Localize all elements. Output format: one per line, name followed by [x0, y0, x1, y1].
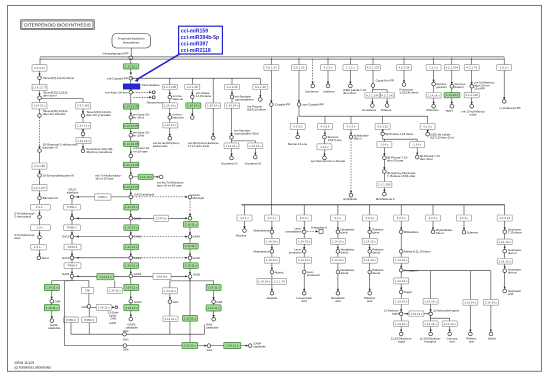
svg-text:Taxa-4(5),11(12)-diene: Taxa-4(5),11(12)-diene: [43, 76, 75, 80]
svg-text:4.3.3.0: 4.3.3.0: [293, 125, 303, 129]
svg-text:P450-1: P450-1: [98, 195, 108, 199]
svg-text:1.14.14.x: 1.14.14.x: [395, 300, 408, 304]
svg-text:dien-3β-ol: dien-3β-ol: [420, 157, 433, 161]
svg-text:P450-3: P450-3: [68, 245, 78, 249]
svg-text:1.14.14.x: 1.14.14.x: [266, 239, 279, 243]
svg-text:GA20: GA20: [193, 272, 201, 276]
svg-text:1.14.x: 1.14.x: [413, 143, 422, 147]
svg-text:aldehyde: aldehyde: [67, 191, 79, 195]
svg-text:1.14.14.x: 1.14.14.x: [187, 104, 200, 108]
svg-text:Abietadienol: Abietadienol: [253, 250, 269, 254]
svg-text:2,10(14)-diene: 2,10(14)-diene: [400, 91, 419, 95]
svg-text:1.14.x: 1.14.x: [320, 145, 329, 149]
svg-text:GA12-aldehyde: GA12-aldehyde: [134, 192, 154, 196]
svg-text:Taxol: Taxol: [41, 256, 49, 260]
svg-text:4.2.3.x: 4.2.3.x: [459, 216, 469, 220]
svg-text:2.3.1...: 2.3.1...: [34, 245, 43, 249]
svg-text:acid: acid: [469, 339, 475, 343]
svg-text:1.14.13.x: 1.14.13.x: [332, 258, 345, 262]
svg-text:1.14.11.x: 1.14.11.x: [125, 264, 138, 268]
svg-text:1.14.11.x: 1.14.11.x: [185, 264, 198, 268]
svg-text:pimarenol: pimarenol: [289, 250, 302, 254]
svg-text:1.5.1.x: 1.5.1.x: [500, 66, 510, 70]
svg-text:P450-1: P450-1: [67, 205, 77, 209]
svg-text:Sclareol: Sclareol: [381, 108, 392, 112]
svg-text:1.2.1.79: 1.2.1.79: [274, 279, 285, 283]
svg-text:4.2.1.x: 4.2.1.x: [267, 216, 277, 220]
svg-text:1.1.1.295: 1.1.1.295: [378, 183, 391, 187]
svg-text:Abietal: Abietal: [275, 270, 284, 274]
svg-text:Plaunotol: Plaunotol: [426, 108, 438, 112]
svg-text:acid: acid: [367, 299, 373, 303]
svg-text:1.14.11.x: 1.14.11.x: [184, 344, 197, 348]
svg-text:4.2.1.133: 4.2.1.133: [367, 66, 380, 70]
svg-text:dien-15-ol: dien-15-ol: [343, 91, 356, 95]
svg-text:1.14.11.x: 1.14.11.x: [109, 289, 122, 293]
svg-text:diene: diene: [341, 231, 348, 235]
svg-text:Stemar-13-ene: Stemar-13-ene: [288, 142, 308, 146]
svg-text:8(14),15-diene: 8(14),15-diene: [247, 108, 266, 112]
svg-text:linalool: linalool: [454, 85, 463, 89]
svg-text:GA1: GA1: [123, 337, 129, 341]
svg-text:copimaradiene: copimaradiene: [235, 98, 254, 102]
svg-text:1.14.14.x: 1.14.14.x: [424, 299, 437, 303]
svg-text:Neocembrene: Neocembrene: [147, 101, 165, 105]
svg-text:P450-3: P450-3: [66, 318, 76, 322]
svg-text:Momilactone A: Momilactone A: [376, 197, 395, 201]
svg-text:4.2.3.32: 4.2.3.32: [377, 125, 388, 129]
svg-text:1.14.14.x: 1.14.14.x: [427, 93, 440, 97]
svg-text:1.14.14.x: 1.14.14.x: [266, 258, 279, 262]
svg-text:1.14.14.x: 1.14.14.x: [464, 300, 477, 304]
svg-text:1.14...: 1.14...: [36, 226, 45, 230]
svg-text:1.14.14.x: 1.14.14.x: [395, 258, 408, 262]
svg-text:1.14.11.x: 1.14.11.x: [164, 289, 177, 293]
svg-text:acid: acid: [508, 292, 514, 296]
svg-text:4.2.1.140: 4.2.1.140: [366, 93, 379, 97]
svg-text:Salviol: Salviol: [488, 336, 497, 340]
svg-text:1.14.13.77: 1.14.13.77: [32, 86, 47, 90]
svg-text:GA20: GA20: [134, 300, 142, 304]
svg-text:1.14.14.x: 1.14.14.x: [395, 322, 408, 326]
svg-text:taxol: taxol: [14, 236, 20, 240]
svg-text:baccatin III: baccatin III: [43, 146, 58, 150]
svg-text:1.14.14.x: 1.14.14.x: [207, 104, 220, 108]
svg-text:4.2.1.105: 4.2.1.105: [164, 85, 177, 89]
svg-text:4.2.1.x: 4.2.1.x: [397, 216, 407, 220]
svg-text:dien-ol: dien-ol: [508, 251, 517, 255]
svg-text:1.14.11.x: 1.14.11.x: [46, 306, 59, 310]
svg-text:10-Deacetylbaccatin III: 10-Deacetylbaccatin III: [43, 174, 75, 178]
svg-text:GA4: GA4: [123, 329, 129, 333]
svg-text:1.14.13.x: 1.14.13.x: [298, 239, 311, 243]
svg-text:1.14.14.x: 1.14.14.x: [226, 104, 239, 108]
svg-text:cci-miR394b-5p: cci-miR394b-5p: [181, 35, 219, 41]
svg-text:4.2.1.144: 4.2.1.144: [446, 66, 459, 70]
svg-text:17,17-dien-19-al: 17,17-dien-19-al: [188, 144, 209, 148]
svg-text:dienal: dienal: [341, 271, 349, 275]
svg-text:geraniol: geraniol: [436, 85, 447, 89]
svg-text:16β-ol: 16β-ol: [353, 137, 361, 141]
svg-text:diene: diene: [372, 231, 379, 235]
svg-text:ferruginol: ferruginol: [424, 339, 436, 343]
svg-text:GA4: GA4: [123, 347, 129, 351]
svg-text:4.2.3.39: 4.2.3.39: [399, 66, 410, 70]
svg-text:Aphidicolin: Aphidicolin: [343, 197, 357, 201]
svg-text:1.14.13.x: 1.14.13.x: [364, 258, 377, 262]
svg-text:dihydroxy-taxadiene: dihydroxy-taxadiene: [86, 150, 112, 154]
svg-text:GA53: GA53: [134, 235, 142, 239]
svg-text:1.14.14.x: 1.14.14.x: [395, 279, 408, 283]
svg-text:Oryzalexin E: Oryzalexin E: [245, 161, 261, 165]
svg-text:DB: DB: [85, 288, 89, 292]
svg-text:2.3.1.167: 2.3.1.167: [33, 186, 46, 190]
svg-text:catabolite: catabolite: [206, 326, 219, 330]
svg-text:dien-5α,13α-diol: dien-5α,13α-diol: [43, 112, 66, 116]
svg-text:Abieta-8,11,13-triene: Abieta-8,11,13-triene: [404, 250, 431, 254]
svg-text:Abietadienal: Abietadienal: [253, 228, 269, 232]
svg-text:4.2.1.x: 4.2.1.x: [240, 216, 250, 220]
svg-text:1.14.13.x: 1.14.13.x: [298, 258, 311, 262]
svg-text:kaurenoate: kaurenoate: [153, 144, 168, 148]
svg-text:1.14.11.x: 1.14.11.x: [98, 305, 111, 309]
svg-text:1.14.11.x: 1.14.11.x: [184, 316, 197, 320]
svg-text:1.14.x: 1.14.x: [380, 143, 389, 147]
svg-text:5.5.1.13: 5.5.1.13: [294, 66, 305, 70]
svg-text:1.14.13.78: 1.14.13.78: [124, 124, 139, 128]
svg-text:Casbene: Casbene: [323, 89, 335, 93]
svg-text:00904 11/1/21: 00904 11/1/21: [15, 361, 35, 365]
svg-text:1.1.1.x: 1.1.1.x: [346, 66, 356, 70]
svg-text:1.13.11.x: 1.13.11.x: [125, 65, 138, 69]
svg-text:cis-Abienol: cis-Abienol: [362, 108, 376, 112]
svg-text:4.2.3.x: 4.2.3.x: [300, 216, 310, 220]
svg-text:1.14.13.x: 1.14.13.x: [33, 104, 46, 108]
svg-text:1.14.14.x: 1.14.14.x: [164, 104, 177, 108]
svg-text:en-19-oate: en-19-oate: [133, 149, 148, 153]
svg-text:2'-deoxytaxol: 2'-deoxytaxol: [14, 215, 31, 219]
svg-text:acid: acid: [335, 299, 341, 303]
svg-text:12,15-diene: 12,15-diene: [196, 94, 212, 98]
svg-text:en-19-al: en-19-al: [133, 134, 144, 138]
svg-text:pimarenal: pimarenal: [307, 273, 320, 277]
svg-text:P450-2: P450-2: [67, 226, 77, 230]
svg-text:1.14.13.x: 1.14.13.x: [332, 239, 345, 243]
svg-text:GA15: GA15: [62, 256, 70, 260]
svg-text:4.2.1.28: 4.2.1.28: [187, 85, 198, 89]
svg-text:16-en-19-oate: 16-en-19-oate: [95, 177, 114, 181]
svg-text:1.14.11.x: 1.14.11.x: [164, 317, 177, 321]
svg-text:cci-miR397: cci-miR397: [181, 41, 209, 47]
svg-text:GA12: GA12: [62, 235, 70, 239]
svg-text:1.14.14.x: 1.14.14.x: [164, 123, 177, 127]
svg-text:1.14.11.x: 1.14.11.x: [185, 244, 198, 248]
svg-text:Nezukol: Nezukol: [236, 233, 247, 237]
svg-text:GA19: GA19: [134, 272, 142, 276]
svg-text:11-Hydroxyferruginol: 11-Hydroxyferruginol: [433, 308, 459, 312]
svg-text:1.1.1.x: 1.1.1.x: [429, 66, 439, 70]
svg-text:4.2.1.30: 4.2.1.30: [255, 85, 266, 89]
svg-text:GA44: GA44: [134, 256, 142, 260]
svg-text:1.14.14.x: 1.14.14.x: [424, 322, 437, 326]
svg-text:4.2.3.x: 4.2.3.x: [423, 125, 433, 129]
svg-text:ent-Kaur-16-ene: ent-Kaur-16-ene: [105, 90, 128, 94]
svg-text:4.2.3.x: 4.2.3.x: [365, 216, 375, 220]
svg-text:1.14.13.78: 1.14.13.78: [124, 105, 139, 109]
svg-text:dien-19-oate: dien-19-oate: [387, 158, 404, 162]
svg-text:1.14.14.x: 1.14.14.x: [446, 93, 459, 97]
svg-text:1.14.14.x: 1.14.14.x: [249, 144, 262, 148]
svg-text:1.14.13.x: 1.14.13.x: [77, 139, 90, 143]
svg-text:8(17),13-dien-15-ol: 8(17),13-dien-15-ol: [430, 136, 454, 140]
svg-text:GA4: GA4: [55, 299, 61, 303]
svg-text:Sclarene: Sclarene: [467, 230, 479, 234]
svg-text:4.2.3.29: 4.2.3.29: [227, 85, 238, 89]
svg-text:CYP714: CYP714: [156, 216, 168, 220]
svg-text:4.2.3.x: 4.2.3.x: [428, 216, 438, 220]
svg-text:syn-Stemod-13-en-19-oate: syn-Stemod-13-en-19-oate: [311, 159, 346, 163]
svg-text:syn-Copalyl-PP: syn-Copalyl-PP: [302, 103, 323, 107]
svg-text:2.3.1...: 2.3.1...: [36, 205, 45, 209]
svg-text:pimaradiene: pimaradiene: [286, 230, 302, 234]
svg-text:P450-3: P450-3: [84, 318, 94, 322]
svg-text:ent-Copalyl-PP: ent-Copalyl-PP: [107, 76, 128, 80]
svg-text:1.14.13.x: 1.14.13.x: [125, 205, 138, 209]
svg-text:1.14.13.x: 1.14.13.x: [364, 239, 377, 243]
svg-text:oxide: oxide: [470, 112, 477, 116]
svg-text:1.14.11.x: 1.14.11.x: [125, 245, 138, 249]
svg-text:Baccatin III: Baccatin III: [43, 196, 58, 200]
svg-text:catabolite: catabolite: [48, 326, 61, 330]
svg-text:4.3.3.4: 4.3.3.4: [346, 125, 356, 129]
svg-text:4.3.3.6: 4.3.3.6: [320, 125, 330, 129]
svg-text:Miltiradiene: Miltiradiene: [404, 230, 419, 234]
svg-text:catabolite: catabolite: [253, 345, 266, 349]
svg-text:GA19: GA19: [192, 256, 200, 260]
svg-text:kaurenol: kaurenol: [173, 116, 184, 120]
svg-text:biosynthesis: biosynthesis: [123, 40, 140, 44]
svg-text:2.14.14.x: 2.14.14.x: [485, 300, 498, 304]
svg-text:dien-al: dien-al: [508, 271, 517, 275]
svg-text:1.14.13.79: 1.14.13.79: [124, 185, 139, 189]
svg-text:13(17)-ene: 13(17)-ene: [328, 138, 343, 142]
svg-text:(c) Kanehisa Laboratories: (c) Kanehisa Laboratories: [15, 365, 52, 369]
svg-text:1.14.13.79: 1.14.13.79: [124, 163, 139, 167]
svg-text:4.2.1.141: 4.2.1.141: [381, 93, 394, 97]
svg-text:P450-3: P450-3: [68, 264, 78, 268]
svg-text:1.14.11.x: 1.14.11.x: [125, 285, 138, 289]
svg-text:4.2.x: 4.2.x: [335, 216, 342, 220]
svg-text:1.14.14.x: 1.14.14.x: [258, 279, 271, 283]
svg-text:GA1: GA1: [207, 348, 213, 352]
svg-text:DITERPENOID BIOSYNTHESIS: DITERPENOID BIOSYNTHESIS: [24, 23, 91, 28]
svg-text:sugiol: sugiol: [398, 339, 406, 343]
svg-text:4.2.3.x: 4.2.3.x: [323, 66, 333, 70]
svg-text:cci-miR2118: cci-miR2118: [181, 48, 211, 54]
svg-text:Oryzalexin D: Oryzalexin D: [221, 161, 238, 165]
svg-text:1.14.13.x: 1.14.13.x: [77, 124, 90, 128]
svg-text:1.14.14.x: 1.14.14.x: [444, 322, 457, 326]
svg-text:4.2.1.75: 4.2.1.75: [466, 66, 477, 70]
svg-text:GA1: GA1: [173, 300, 179, 304]
svg-text:Abietate: Abietate: [267, 296, 278, 300]
svg-text:7,15-diene-19,6β-olide: 7,15-diene-19,6β-olide: [387, 174, 415, 178]
svg-text:GA51: GA51: [109, 321, 117, 325]
svg-text:sugiol: sugiol: [392, 312, 400, 316]
svg-text:dien-5α-ol: dien-5α-ol: [43, 94, 57, 98]
svg-text:copimaradien-3β-ol: copimaradien-3β-ol: [234, 131, 259, 135]
svg-text:4.2.1.126: 4.2.1.126: [465, 93, 478, 97]
svg-text:1.14.11.x: 1.14.11.x: [185, 222, 198, 226]
svg-text:Copalyl-PP: Copalyl-PP: [275, 103, 290, 107]
svg-text:aldehyde: aldehyde: [192, 196, 204, 200]
svg-text:1.14.11.x: 1.14.11.x: [208, 306, 221, 310]
svg-text:TMTT: TMTT: [445, 109, 453, 113]
svg-text:Sugiol: Sugiol: [404, 290, 412, 294]
svg-text:1.14.13.x: 1.14.13.x: [499, 259, 512, 263]
svg-text:2.3.1.162: 2.3.1.162: [77, 104, 90, 108]
svg-text:dien-5α-yl acetate: dien-5α-yl acetate: [86, 113, 111, 117]
svg-text:1.14.11.x: 1.14.11.x: [226, 344, 239, 348]
svg-text:16α-ol: 16α-ol: [436, 231, 444, 235]
svg-text:Ginkgolide A: Ginkgolide A: [311, 226, 327, 230]
svg-text:GA24: GA24: [62, 272, 70, 276]
svg-text:acid: acid: [450, 339, 456, 343]
svg-text:1.14.11.x: 1.14.11.x: [46, 285, 59, 289]
svg-text:GA8: GA8: [216, 300, 222, 304]
svg-text:4.2.3.17: 4.2.3.17: [34, 66, 45, 70]
svg-text:1.14.11.x: 1.14.11.x: [208, 286, 221, 290]
svg-text:Trinervitadiene: Trinervitadiene: [141, 83, 160, 87]
svg-text:GA13ox: GA13ox: [157, 275, 168, 279]
svg-text:acid: acid: [302, 299, 308, 303]
svg-text:1.14.13.x: 1.14.13.x: [125, 226, 138, 230]
svg-text:1.14.13.x: 1.14.13.x: [140, 175, 153, 179]
svg-text:15-yl-PP: 15-yl-PP: [474, 86, 485, 90]
svg-text:1.14.14.x: 1.14.14.x: [225, 144, 238, 148]
svg-text:Ferruginol: Ferruginol: [405, 268, 418, 272]
svg-text:kaur-16-en-19-oate: kaur-16-en-19-oate: [157, 183, 182, 187]
svg-text:(-)-Kolavenyl-PP: (-)-Kolavenyl-PP: [499, 106, 520, 110]
svg-text:7,15-diene: 7,15-diene: [508, 231, 522, 235]
svg-text:Geranylgeranyl-PP: Geranylgeranyl-PP: [102, 51, 128, 55]
svg-text:dienal: dienal: [372, 271, 380, 275]
svg-text:1.14.11.x: 1.14.11.x: [99, 275, 112, 279]
svg-text:9β-Pimara-7,15-diene: 9β-Pimara-7,15-diene: [385, 132, 413, 136]
svg-text:5.5.1.12: 5.5.1.12: [266, 66, 277, 70]
svg-text:cci-miR159: cci-miR159: [181, 29, 209, 35]
svg-text:4.2.3.44: 4.2.3.44: [499, 216, 510, 220]
svg-text:kaurene: kaurene: [173, 97, 184, 101]
svg-text:1.14.14.x: 1.14.14.x: [410, 312, 423, 316]
svg-text:en-19-ol: en-19-ol: [133, 115, 144, 119]
svg-text:2.3.1.88: 2.3.1.88: [34, 164, 45, 168]
svg-text:Copal-8-ol-PP: Copal-8-ol-PP: [376, 79, 394, 83]
svg-text:dienol: dienol: [341, 250, 349, 254]
svg-text:1.14.11.x: 1.14.11.x: [125, 306, 138, 310]
svg-text:1.14.13.x: 1.14.13.x: [499, 240, 512, 244]
svg-text:GA44: GA44: [192, 235, 200, 239]
svg-text:dienol: dienol: [372, 250, 380, 254]
svg-text:GA9: GA9: [81, 305, 87, 309]
svg-text:Cembrene: Cembrene: [305, 89, 319, 93]
